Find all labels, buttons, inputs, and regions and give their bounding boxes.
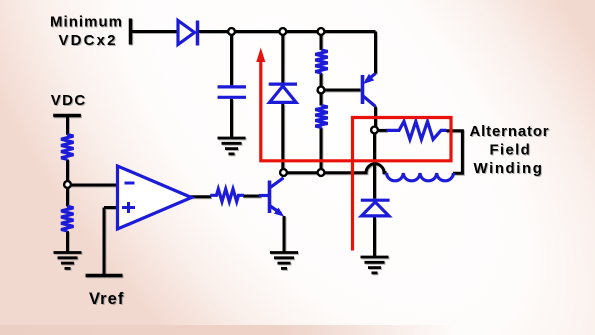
svg-text:Vref: Vref xyxy=(89,290,125,308)
svg-text:Winding: Winding xyxy=(473,160,543,177)
svg-text:Alternator: Alternator xyxy=(470,123,550,140)
svg-text:VDC: VDC xyxy=(51,92,87,109)
svg-text:Field: Field xyxy=(489,142,531,159)
svg-text:VDCx2: VDCx2 xyxy=(59,32,118,49)
svg-text:Minimum: Minimum xyxy=(50,14,123,31)
